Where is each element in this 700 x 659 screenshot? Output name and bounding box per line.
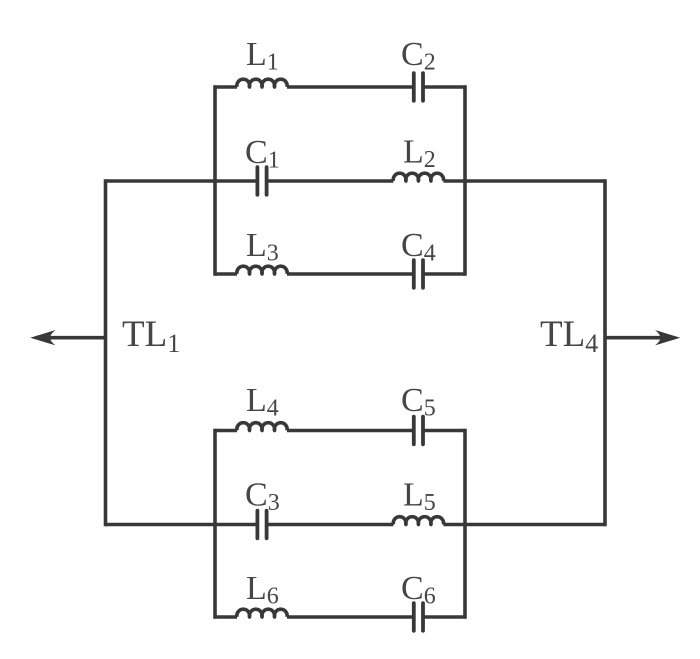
wire outer right rail xyxy=(603,181,607,525)
wire middle branch upper group left segment xyxy=(106,179,258,183)
capacitor C6 xyxy=(414,603,423,631)
wire middle branch upper group center segment xyxy=(267,179,394,183)
wire top branch upper group right lead xyxy=(423,85,465,89)
wire top branch lower group middle xyxy=(287,429,414,433)
svg-text:L3: L3 xyxy=(246,227,279,267)
capacitor C5 xyxy=(414,417,423,445)
wire bottom branch lower group right lead xyxy=(423,615,465,619)
wire inner right rail lower group xyxy=(463,431,467,618)
wire middle branch lower group right segment xyxy=(443,523,605,527)
wire inner left rail upper group xyxy=(213,87,217,274)
port TL4 arrow shaft xyxy=(605,336,662,340)
svg-text:L4: L4 xyxy=(246,382,279,422)
wire middle branch lower group left segment xyxy=(106,523,258,527)
port TL1 arrow shaft xyxy=(48,336,106,340)
wire top branch upper group middle xyxy=(287,85,414,89)
svg-text:C6: C6 xyxy=(401,570,436,610)
svg-text:TL4: TL4 xyxy=(540,314,598,358)
svg-text:C5: C5 xyxy=(401,382,436,422)
svg-text:C4: C4 xyxy=(401,227,436,267)
wire inner right rail upper group xyxy=(463,87,467,274)
port TL1 arrowhead xyxy=(30,330,55,345)
svg-text:C1: C1 xyxy=(245,134,280,174)
svg-text:TL1: TL1 xyxy=(122,314,180,358)
svg-text:L1: L1 xyxy=(246,36,279,76)
inductor L3 xyxy=(237,266,287,274)
wire inner left rail lower group xyxy=(213,431,217,618)
capacitor C3 xyxy=(257,511,266,539)
capacitor C2 xyxy=(414,73,423,101)
wire bottom branch upper group right lead xyxy=(423,272,465,276)
wire outer left rail xyxy=(104,181,108,525)
wire top branch lower group left lead xyxy=(215,429,237,433)
inductor L2 xyxy=(393,173,443,181)
inductor L1 xyxy=(237,79,287,87)
svg-text:C2: C2 xyxy=(401,36,436,76)
wire bottom branch lower group middle xyxy=(287,615,414,619)
wire bottom branch upper group left lead xyxy=(215,272,237,276)
wire bottom branch lower group left lead xyxy=(215,615,237,619)
wire middle branch lower group center segment xyxy=(267,523,394,527)
svg-text:L2: L2 xyxy=(403,134,436,174)
capacitor C1 xyxy=(257,167,266,195)
wire top branch upper group left lead xyxy=(215,85,237,89)
inductor L5 xyxy=(393,517,443,525)
svg-text:L5: L5 xyxy=(403,477,436,517)
capacitor C4 xyxy=(414,260,423,288)
svg-text:L6: L6 xyxy=(246,570,279,610)
wire middle branch upper group right segment xyxy=(443,179,605,183)
wire top branch lower group right lead xyxy=(423,429,465,433)
svg-text:C3: C3 xyxy=(245,477,280,517)
wire bottom branch upper group middle xyxy=(287,272,414,276)
inductor L4 xyxy=(237,423,287,431)
port TL4 arrowhead xyxy=(655,330,680,345)
inductor L6 xyxy=(237,609,287,617)
